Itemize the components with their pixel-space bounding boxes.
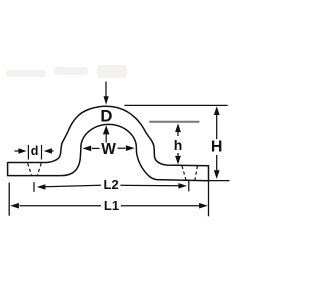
svg-text:L2: L2 [104,177,119,192]
L2 left extension tick [33,182,35,192]
svg-text:H: H [211,139,223,156]
dimension d: right arrow pointing left [44,148,54,154]
right hole hidden lines (tapered, dashed) [182,166,197,180]
dimension L1: left arrow [10,203,101,209]
H bottom extension line [209,180,230,182]
clamp body outline [8,106,209,181]
dimension L2: left arrow [37,184,101,189]
dimension D: down arrow above apex [104,82,109,105]
dimension H: down arrow [214,155,220,179]
L2 right extension tick [188,181,190,192]
L1 left extension line [8,183,10,216]
svg-text:d: d [31,144,39,158]
faint scan ghost marks [6,65,127,78]
dimension d: left arrow pointing right [15,148,27,154]
dimension h: up arrow [175,123,181,136]
L1 right extension line [208,181,210,217]
left hole hidden lines (tapered, dashed) [28,163,42,175]
svg-text:L1: L1 [104,198,119,213]
dimension h: down arrow [175,153,181,165]
H top extension line [124,104,227,106]
dimension W: left arrow [83,146,100,152]
h top extension line (gray) [149,121,199,123]
dimension H: up arrow [214,106,220,139]
dimension L1: right arrow [121,203,208,209]
dimension D: up arrow to inner apex [103,125,110,142]
svg-text:D: D [100,106,112,125]
dimension L2: right arrow [120,183,187,189]
dimension d: extension bars [28,145,41,160]
svg-text:W: W [101,141,116,158]
dimension W: right arrow [118,145,135,151]
svg-text:h: h [174,137,183,153]
